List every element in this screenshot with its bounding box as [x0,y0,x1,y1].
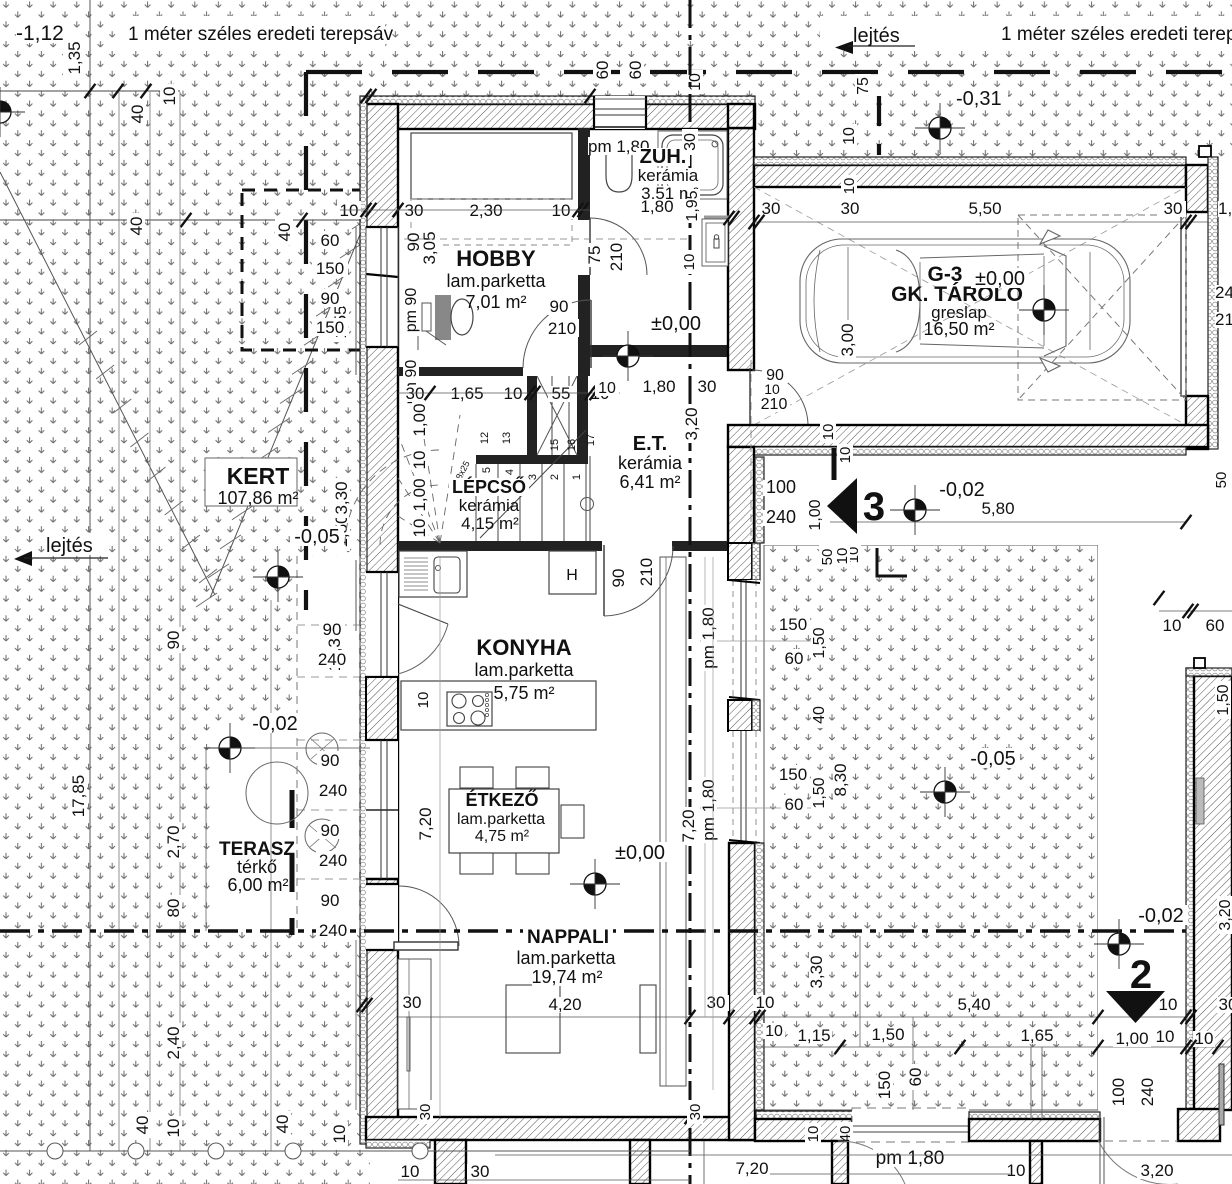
HOBBY desk/bed furniture rect [411,133,572,199]
svg-text:-0,31: -0,31 [956,88,1002,110]
svg-text:-0,02: -0,02 [939,479,985,501]
dining table [449,789,559,853]
white walkway right of driveway [1098,545,1232,1110]
svg-text:40: 40 [811,706,828,724]
svg-text:150: 150 [779,765,807,784]
svg-text:5,40: 5,40 [957,995,990,1014]
svg-text:1,15: 1,15 [797,1026,830,1045]
svg-text:210: 210 [637,558,656,586]
wall: east wall of ZUH/ET to garage [728,128,754,370]
garage door dashed X [1018,215,1186,400]
svg-text:60: 60 [785,795,804,814]
svg-text:kerámia: kerámia [618,453,683,473]
svg-text:17,85: 17,85 [69,775,88,818]
svg-text:30: 30 [406,384,425,403]
svg-text:60: 60 [593,61,612,80]
clipped right rotated dims [1213,468,1229,492]
second building top insulation [1186,668,1232,676]
original terrain strip dashed boundary, vertical [304,72,308,610]
ZUH washbasin [702,219,728,266]
svg-text:30: 30 [471,1162,490,1181]
svg-text:3,00: 3,00 [838,323,857,356]
svg-text:7,20: 7,20 [735,1159,768,1178]
svg-text:1,00: 1,00 [807,499,824,530]
second building chimney square [1194,658,1205,668]
svg-text:1,50: 1,50 [811,777,828,808]
svg-text:6,41 m²: 6,41 m² [619,472,680,492]
wall: stair L-shaped flight wall [527,376,537,456]
svg-text:1,50: 1,50 [811,627,828,658]
svg-text:90: 90 [550,297,569,316]
driveway rotated dims left edge [834,545,850,567]
svg-text:40: 40 [127,217,146,236]
svg-text:10: 10 [841,127,858,145]
door ZUH 75/210 leaf+arc [589,218,591,275]
svg-text:3,20: 3,20 [1217,899,1232,930]
fence pm 1,80 window [852,1108,969,1142]
svg-text:2,40: 2,40 [164,1026,183,1059]
white pm projection strip west of wall [296,556,366,931]
svg-text:lejtés: lejtés [46,535,93,557]
svg-text:10: 10 [330,1125,349,1144]
svg-text:4,75 m²: 4,75 m² [475,828,530,845]
survey grid line horizontal y=91 [0,90,180,92]
svg-text:30: 30 [707,993,726,1012]
TERASZ thin border [206,747,370,749]
east facade: glazing pm 1,80 lower [729,731,760,843]
svg-text:10: 10 [1195,1029,1214,1048]
dim row ET y=392 [595,380,619,396]
survey point ET [603,331,653,381]
dim 3,20 rotated [684,405,700,443]
chimney block on garage NE corner [1199,146,1211,157]
hobby dashed dim line [404,238,688,240]
slope line left branch [0,172,215,595]
white area: TERASZ [210,724,370,931]
level mark near etkezo [611,842,669,862]
svg-text:240: 240 [766,507,796,527]
level -0,05 kert [290,526,344,546]
svg-text:E.T.: E.T. [633,433,667,455]
wall: ET south-east entry corner [728,447,754,545]
svg-text:-0,05: -0,05 [970,748,1016,770]
stove 4 burners [447,692,492,726]
svg-text:1,00: 1,00 [410,478,429,511]
stair walk line diagonal [480,430,586,538]
slope hatch ticks along right branch [352,215,373,229]
svg-text:240: 240 [1138,1078,1157,1106]
svg-text:lam.parketta: lam.parketta [516,948,616,968]
terrain stipple: area above garage [755,0,1232,157]
svg-text:±0,00: ±0,00 [975,268,1025,290]
stair dim row y=393 [402,386,428,402]
svg-text:kerámia: kerámia [638,166,699,185]
wall stub below south wall [435,1140,466,1184]
svg-text:KERT: KERT [227,463,290,489]
garage rotated dim 3,00 [838,320,856,360]
hobby door dims 90/210 [546,297,572,315]
dim rows right of house top [593,57,611,83]
insulation: west exterior [360,96,367,1144]
svg-text:2,70: 2,70 [164,825,183,858]
svg-text:16: 16 [566,439,578,451]
floor drain circle [581,498,594,511]
wall: ZUH/ET partition [590,345,728,357]
svg-text:240: 240 [1215,283,1232,302]
stair winder dashed lines [398,412,460,543]
svg-text:90: 90 [609,569,628,588]
svg-text:3: 3 [863,485,885,529]
second building south-west block [1178,1109,1220,1141]
entry door dim texts [762,367,788,383]
terrain stipple: strip above house [370,0,755,96]
svg-text:210: 210 [761,396,788,413]
svg-text:3,05: 3,05 [420,231,439,264]
dim chain y=1017 bottom [398,1016,1186,1018]
TERASZ dashed window projection strip [296,556,298,931]
insulation: east facade lower [755,843,764,1110]
svg-text:10: 10 [1163,616,1182,635]
fence wall west of pm window [756,1111,860,1119]
dim texts bottom area [398,1164,422,1180]
svg-text:210: 210 [1215,310,1232,329]
svg-text:5,50: 5,50 [968,199,1001,218]
svg-text:5,80: 5,80 [981,499,1014,518]
KERT label box [205,458,297,506]
svg-text:90: 90 [321,891,340,910]
door opening: west wall to TERASZ 90/240 [366,884,398,950]
main entrance door 90/210 to garage side [749,368,751,424]
site axis horizontal dash-dot y=931 [0,929,1232,933]
svg-text:10: 10 [837,447,854,464]
svg-text:1,65: 1,65 [450,384,483,403]
svg-text:240: 240 [318,650,346,669]
svg-text:-0,02: -0,02 [252,713,298,735]
chain vline nappali east 2 [712,557,714,1090]
svg-text:10: 10 [834,548,851,565]
svg-text:1: 1 [571,474,583,480]
dim ticks top corner [361,89,372,103]
svg-text:ZUH.: ZUH. [640,146,687,168]
svg-text:10: 10 [401,1162,420,1181]
second building window gray bar [1196,778,1204,824]
pm labels kitchen door west [319,620,345,638]
svg-text:lam.parketta: lam.parketta [457,811,545,828]
fence wall east of pm window [969,1112,1100,1120]
svg-text:10: 10 [805,1126,822,1143]
svg-text:-0,05: -0,05 [294,526,340,548]
TERASZ heavy dashed boundary [290,790,295,935]
white strip below house [430,1140,1232,1184]
wall: HOBBY south partition [398,367,523,376]
second building west insulation [1186,668,1194,1110]
east facade: pillar block [728,700,752,731]
site axis vertical dash-dot x=690 [689,0,692,1184]
pm labels terasz windows [317,751,343,769]
dim 10/60 right middle [1159,610,1232,612]
svg-text:150: 150 [316,259,344,278]
section marker 2 triangle [1106,991,1165,1023]
svg-text:150: 150 [779,615,807,634]
stair shaft X cross [537,376,577,455]
window dim labels west of wall [317,231,343,249]
svg-text:4: 4 [504,469,516,475]
gate posts double line [1099,1117,1101,1184]
desk monitor lines [422,303,431,331]
garage dim row y=210 [754,221,1208,223]
svg-text:1,95: 1,95 [684,190,701,221]
wall: north exterior (HOBBY+ZUH) [366,104,755,129]
svg-text:7,20: 7,20 [416,807,435,840]
wall: garage east bottom block [1186,396,1208,449]
svg-text:10: 10 [164,1119,183,1138]
svg-text:pm 90: pm 90 [403,288,420,333]
svg-text:40: 40 [128,105,147,124]
svg-text:10: 10 [504,384,523,403]
svg-text:2: 2 [1130,953,1152,997]
house floor white underlay [366,96,755,1144]
level mark ET [647,313,705,333]
svg-text:10: 10 [598,380,616,397]
ZUH shower tray [658,131,727,199]
level -0,02 right bottom [1134,905,1188,925]
svg-text:3,20: 3,20 [1140,1161,1173,1180]
garage sectional door leaf [1181,212,1186,396]
svg-text:pm 1,80: pm 1,80 [876,1148,945,1169]
svg-text:7,20: 7,20 [679,809,698,842]
gate door arc bottom middle [838,1141,905,1184]
svg-text:1,00: 1,00 [410,403,429,436]
svg-text:75: 75 [855,77,872,95]
svg-text:10: 10 [841,178,858,195]
rotated dims on hobby west side [406,229,422,255]
ZUH toilet [600,143,638,153]
svg-text:90: 90 [323,620,342,639]
svg-text:13: 13 [501,432,513,444]
svg-text:H: H [566,567,578,584]
svg-text:-1,12: -1,12 [16,22,64,45]
svg-text:19,74 m²: 19,74 m² [531,967,602,987]
svg-text:60: 60 [1206,616,1225,635]
survey point kert [205,723,255,773]
window: west wall HOBBY pm90+pm90 [366,227,398,347]
door ET-KONYHA 90/210 leaf+arc [603,545,605,616]
TERASZ plant circle small lower [305,819,339,853]
svg-text:15: 15 [549,439,561,451]
svg-text:10: 10 [765,1023,783,1040]
svg-text:6,00 m²: 6,00 m² [227,875,288,895]
slope line right branch (embankment edge) [210,220,366,598]
thin line bottom dim [495,1154,1232,1156]
svg-text:60: 60 [785,649,804,668]
svg-text:30: 30 [698,377,717,396]
svg-text:3,30: 3,30 [807,955,826,988]
svg-text:5: 5 [481,467,493,473]
NAPPALI coffee table [506,985,560,1053]
svg-text:60: 60 [626,61,645,80]
wall: garage south / ET south [728,425,1208,447]
window: west wall to TERASZ two pm 90/240 [366,740,398,879]
wall: ET/KONYHA partition [398,541,602,551]
svg-text:100: 100 [1109,1078,1128,1106]
level -0,05 driveway [966,748,1020,768]
driveway dims right [776,615,810,633]
svg-text:55: 55 [552,384,571,403]
svg-text:lam.parketta: lam.parketta [474,660,574,680]
left vertical chain kert bottom [355,940,357,1110]
HOBBY dashed closet line [411,199,572,245]
svg-text:10: 10 [340,201,359,220]
svg-text:80: 80 [164,899,183,918]
svg-text:4,15 m²: 4,15 m² [461,514,519,533]
stair treads lower flight [475,464,477,541]
hobby desk table line [417,290,419,350]
svg-text:1,80: 1,80 [642,377,675,396]
wall: south exterior (NAPPALI) [366,1117,755,1140]
svg-text:pm 1,80: pm 1,80 [699,779,718,840]
konyha garden door leaf and arc [398,604,448,624]
svg-text:10: 10 [820,424,837,441]
door leaf + swing arc to TERASZ [394,942,458,950]
svg-text:10: 10 [410,519,429,538]
svg-text:30: 30 [1164,199,1183,218]
survey point near marker 3 [890,485,940,535]
KONYHA sink counter [399,551,467,597]
svg-text:40: 40 [273,1115,292,1134]
svg-text:10: 10 [160,87,179,106]
second building west wall [1194,676,1232,1110]
svg-text:LÉPCSŐ: LÉPCSŐ [452,476,526,497]
terrain stipple: driveway south of garage [764,545,1098,1110]
svg-text:210: 210 [607,243,626,271]
insulation: garage north [754,157,1186,165]
level -0,31 and survey point [956,88,1008,108]
svg-text:10: 10 [410,451,429,470]
svg-text:90: 90 [321,751,340,770]
svg-text:40: 40 [133,1116,152,1135]
door: west wall KONYHA to garden 90/240 [366,572,398,677]
svg-text:ÉTKEZŐ: ÉTKEZŐ [465,789,538,810]
TERASZ plant circle small upper [306,733,338,765]
survey point garage [1019,285,1069,335]
svg-text:107,86 m²: 107,86 m² [217,488,298,508]
east facade: sill block top [728,543,752,580]
svg-text:8,30: 8,30 [831,763,850,796]
window: north wall ZUH pm 1,80 [594,96,646,129]
room label ETKEZO [462,791,542,809]
svg-text:30: 30 [687,1104,704,1121]
fence 40 rotated dim [837,1122,853,1146]
svg-text:10: 10 [415,692,432,709]
garage clipped dims right edge [1215,285,1232,301]
lejtes arrow left [14,551,32,566]
svg-text:12: 12 [479,432,491,444]
svg-text:240: 240 [319,781,347,800]
section marker 3 triangle [827,478,857,534]
svg-text:4,20: 4,20 [548,995,581,1014]
dim 5,80 line [830,521,1186,523]
boiler H box [549,551,596,594]
svg-text:1,80: 1,80 [640,197,673,216]
svg-text:30: 30 [405,201,424,220]
door arc second building [1098,1140,1178,1184]
insulation: garage east [1208,157,1218,449]
svg-text:lam.parketta: lam.parketta [446,271,546,291]
zuh door dims [587,243,603,267]
white strip south of garage [755,457,1232,545]
interior chain vline nappali east [704,557,706,1017]
svg-text:10: 10 [1007,1161,1026,1180]
car in garage [800,230,1130,372]
svg-text:1,65: 1,65 [1020,1026,1053,1045]
svg-text:150: 150 [875,1071,894,1099]
insulation: below garage south wall [754,447,1186,455]
wall: HOBBY/ZUH partition [578,128,590,220]
dashed setback rectangle top-left [242,190,398,350]
svg-text:térkő: térkő [237,857,277,877]
svg-text:30: 30 [417,1104,434,1121]
svg-text:10: 10 [681,254,698,271]
wall: stair shaft right wall [577,376,588,456]
svg-text:NAPPALI: NAPPALI [527,927,609,948]
svg-text:2,30: 2,30 [469,201,502,220]
svg-text:10: 10 [1156,1027,1175,1046]
survey point kert -0,05 [253,552,303,602]
svg-text:1,50: 1,50 [1215,684,1232,715]
svg-text:50: 50 [1213,472,1230,489]
NAPPALI sofa along west wall [398,959,431,1109]
original terrain strip dashed boundary, horizontal [306,70,1232,74]
lejtes arrow top right [835,41,853,54]
svg-text:75: 75 [585,246,604,265]
rotated dims below driveway [877,1068,893,1102]
garden wall stub bottom middle [630,1140,650,1184]
svg-text:2: 2 [549,474,561,480]
second building door leaf [1219,1064,1224,1125]
survey point kert west edge [0,87,25,137]
left dimension chain lines [355,227,357,375]
garden wall stub mid-right [832,1141,848,1184]
garage door diagonal dashed guides [754,187,1186,425]
interior chain vline konyha-nappali [439,556,441,1117]
svg-text:pm 1,80: pm 1,80 [699,607,718,668]
svg-text:1,35: 1,35 [65,41,84,74]
svg-text:1 méter széles eredeti terepsá: 1 méter széles eredeti terepsáv [1001,24,1232,45]
left chain labels [63,38,83,78]
slope hatch ticks along left branch [79,331,97,345]
driveway corner mark [877,548,907,576]
svg-text:10: 10 [687,73,704,91]
level -0,02 kert [248,713,302,733]
survey point driveway [920,767,970,817]
svg-text:30: 30 [841,199,860,218]
svg-text:1,1: 1,1 [1218,199,1232,218]
white halo under top-right caption [820,16,1232,48]
svg-text:17: 17 [585,434,597,446]
terrain stipple: left garden KERT area [0,0,370,1184]
kitchen counter with stove [401,681,596,730]
stair rotated dims left [412,401,428,439]
svg-text:60: 60 [906,1068,925,1087]
svg-text:7,01 m²: 7,01 m² [465,292,526,312]
svg-text:1 méter széles eredeti terepsá: 1 méter széles eredeti terepsáv [128,24,394,45]
stair treads upper flight in shaft [551,376,553,455]
entry porch dims 100/240 [763,480,799,496]
desk chair ellipse [451,299,473,335]
TERASZ plant circle large [246,762,308,824]
short dashed boundary above garage [877,96,881,155]
dim 7,20 rotated etkezo [418,805,434,843]
